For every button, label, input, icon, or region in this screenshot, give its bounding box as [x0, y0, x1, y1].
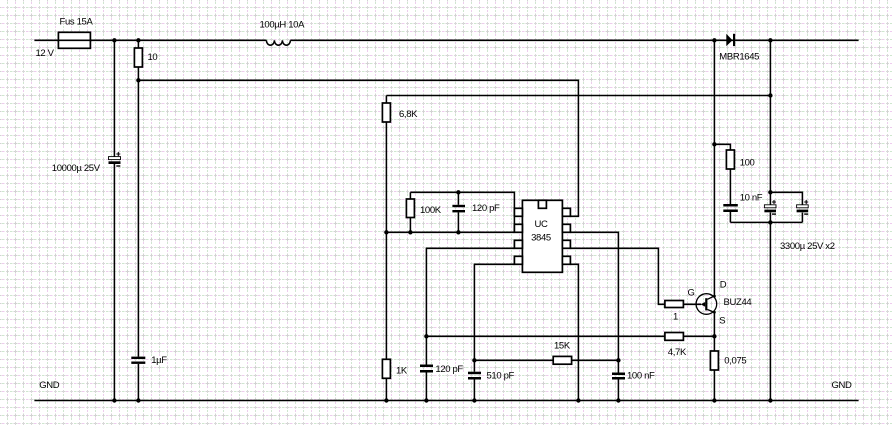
svg-text:100 nF: 100 nF: [627, 371, 655, 382]
node junction 714/144: [712, 142, 716, 146]
node junction at 138/bottom rail: [136, 398, 140, 402]
pin 4 left: [514, 256, 522, 264]
pin 8 right: [562, 208, 570, 216]
node junction 100K bottom: [408, 230, 412, 234]
svg-text:GND: GND: [39, 380, 60, 391]
wire VCC rail y=80: [138, 80, 578, 216]
wire snubber branch y=144: [714, 144, 730, 150]
node junction pin5/bottom rail: [576, 398, 580, 402]
node junction 770/bottom rail: [768, 398, 772, 402]
svg-text:0,075: 0,075: [724, 356, 746, 367]
svg-text:3845: 3845: [531, 233, 551, 244]
capacitor 1uF: [131, 357, 145, 364]
resistor 6,8K: [382, 96, 390, 360]
node junction at 138/80: [136, 78, 140, 82]
wire drain line: [713, 40, 715, 296]
capacitor 510 pF: [468, 360, 481, 400]
transistor Q1 BUZ44: [696, 294, 717, 315]
capacitor 3300u 25V second: [797, 200, 809, 222]
node junction 6.8K/FB wire: [384, 230, 388, 234]
svg-text:100K: 100K: [420, 205, 442, 216]
op-amp U1 UC3845 IC body: [522, 200, 562, 272]
svg-text:510 pF: 510 pF: [487, 370, 515, 381]
node junction 618/bottom rail: [616, 398, 620, 402]
wire output vertical 770: [769, 40, 771, 400]
node junction 474/bottom rail: [472, 398, 476, 402]
node junction at 114/top: [112, 38, 116, 42]
resistor 1 gate: [665, 301, 684, 308]
wire mid rail y=95.5: [386, 95, 770, 97]
node junction at 138/top: [136, 38, 140, 42]
wire input cap branch: [113, 40, 115, 400]
wire pin5 GND down: [570, 264, 578, 400]
resistor 0,075 shunt: [710, 351, 718, 401]
svg-text:12 V: 12 V: [36, 48, 55, 59]
node junction 770/top: [768, 38, 772, 42]
wire bottom GND rail: [34, 400, 858, 402]
svg-text:MBR1645: MBR1645: [719, 52, 759, 63]
svg-text:G: G: [688, 288, 695, 299]
svg-text:S: S: [719, 316, 725, 327]
diode D1 MBR1645: [726, 34, 735, 46]
svg-text:10 nF: 10 nF: [740, 193, 763, 204]
svg-text:100µH 10A: 100µH 10A: [260, 20, 306, 31]
resistor 4,7K: [665, 333, 684, 341]
capacitor 10000u 25V electrolytic: [109, 152, 121, 166]
capacitor 3300u 25V first: [764, 200, 776, 214]
inductor L1 100uH: [266, 40, 290, 45]
wire FB y=232: [386, 231, 514, 233]
node junction cap top: [456, 190, 460, 194]
svg-text:6,8K: 6,8K: [399, 109, 418, 120]
node junction 618/360: [616, 358, 620, 362]
resistor 1K: [382, 359, 390, 400]
wire RtCt y=360: [474, 359, 618, 361]
svg-text:D: D: [720, 280, 727, 291]
svg-text:10000µ 25V: 10000µ 25V: [52, 163, 101, 174]
svg-text:10: 10: [148, 52, 158, 63]
svg-text:4,7K: 4,7K: [668, 347, 687, 358]
resistor 100K: [406, 192, 414, 232]
wire cap bottom bus y=222.4: [730, 221, 802, 223]
resistor 15K: [553, 356, 571, 364]
resistor 10: [134, 40, 142, 67]
wire gate resistor to transistor: [683, 303, 701, 305]
node junction 770/95.5: [768, 93, 772, 97]
svg-text:15K: 15K: [554, 341, 571, 352]
wire CS y=336: [426, 335, 714, 337]
pin 7 right: [562, 224, 570, 232]
capacitor 120 pF upper: [452, 192, 465, 232]
pin 3 left: [514, 240, 522, 248]
fuse Fus 15A: [57, 32, 92, 48]
svg-text:1µF: 1µF: [151, 355, 167, 366]
node junction 714/bottom rail: [712, 398, 716, 402]
capacitor 120 pF lower: [420, 336, 433, 400]
svg-text:100: 100: [740, 158, 755, 169]
node junction 1K/bottom rail: [384, 398, 388, 402]
pin 1 left: [514, 208, 522, 216]
wire from resistor 10 down to 1uF: [137, 67, 139, 401]
wire branch to second cap: [770, 192, 802, 205]
node junction 426/bottom rail: [424, 398, 428, 402]
pin 2 left: [514, 224, 522, 232]
svg-text:1: 1: [673, 312, 678, 323]
node junction at 114/bottom rail: [112, 398, 116, 402]
node junction 474/360: [472, 358, 476, 362]
svg-text:GND: GND: [832, 380, 853, 391]
wire source line: [713, 312, 715, 351]
wire pin3 y=248: [426, 248, 514, 336]
svg-text:1K: 1K: [396, 366, 408, 377]
wire pin6 OUT to gate: [570, 248, 665, 304]
resistor 100: [726, 150, 734, 169]
node junction 770/222.4: [768, 220, 772, 224]
wire top rail 12V: [34, 39, 858, 41]
node junction cap bottom: [456, 230, 460, 234]
svg-text:UC: UC: [534, 219, 548, 230]
wire pin7 VCC decoupling: [570, 232, 618, 372]
pin 5 right: [562, 256, 570, 264]
svg-text:120 pF: 120 pF: [435, 364, 463, 375]
pin 6 right: [562, 240, 570, 248]
wire comp top y=192: [410, 192, 514, 232]
capacitor 10 nF: [723, 169, 738, 222]
svg-text:120 pF: 120 pF: [472, 203, 500, 214]
capacitor 100 nF: [612, 373, 625, 401]
svg-text:3300µ 25V x2: 3300µ 25V x2: [780, 241, 835, 252]
node junction 770/192: [768, 190, 772, 194]
node junction drain/top: [712, 38, 716, 42]
svg-text:Fus 15A: Fus 15A: [60, 16, 94, 27]
wire pin4 y=264: [474, 264, 514, 360]
node junction 426/336: [424, 334, 428, 338]
svg-text:BUZ44: BUZ44: [724, 297, 752, 308]
node junction source/336: [712, 334, 716, 338]
